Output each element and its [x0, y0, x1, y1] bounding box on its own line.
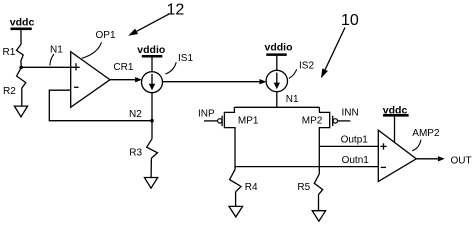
wire N1 rail [234, 106, 319, 108]
svg-text:R5: R5 [297, 182, 310, 193]
op-amp AMP2 [378, 130, 416, 181]
wire AMP2 output to OUT [416, 158, 438, 160]
ground (below R2) [14, 106, 27, 117]
resistor R1 [17, 44, 24, 66]
svg-text:MP1: MP1 [238, 115, 259, 126]
svg-text:N2: N2 [129, 109, 142, 120]
wire MP1 drain column [234, 131, 236, 170]
wire IS2 to N1 rail [276, 92, 278, 108]
transistor MP1 [218, 107, 235, 131]
svg-text:R2: R2 [3, 86, 16, 97]
leader IS1 [165, 62, 176, 74]
wire INN to MP2 gate [338, 120, 351, 122]
power rail vddio (IS1) [142, 55, 163, 72]
current source IS1 [142, 72, 163, 93]
svg-text:Outn1: Outn1 [342, 155, 370, 166]
node N2 dot [150, 119, 154, 123]
leader AMP2 [412, 140, 421, 151]
wire Outn1 [235, 166, 378, 168]
power rail vddc (left) [11, 28, 32, 45]
leader OP1 [82, 42, 102, 58]
svg-text:R3: R3 [129, 147, 142, 158]
svg-text:MP2: MP2 [302, 116, 323, 127]
svg-text:INN: INN [342, 108, 359, 119]
current source IS2 [266, 70, 287, 91]
leader N1 [50, 54, 54, 66]
leader IS2 [289, 69, 297, 78]
resistor R3 [147, 139, 158, 178]
svg-text:R4: R4 [245, 182, 258, 193]
arrow 10 [325, 28, 345, 70]
svg-text:N1: N1 [286, 94, 299, 105]
svg-text:IS1: IS1 [178, 53, 193, 64]
ground (below R4) [229, 206, 243, 217]
wire CR1 (op-amp output to IS1) [110, 79, 136, 81]
power rail vddc (AMP2) [383, 114, 409, 142]
svg-text:vddc: vddc [10, 17, 35, 29]
svg-text:R1: R1 [3, 47, 16, 58]
svg-text:vddc: vddc [383, 104, 408, 116]
resistor R5 [314, 174, 322, 211]
wire node to op-amp + input [21, 66, 79, 68]
svg-text:vddio: vddio [137, 44, 165, 56]
power rail vddio (IS2) [266, 53, 286, 70]
wire Outp1 [319, 145, 378, 147]
svg-text:vddio: vddio [265, 42, 293, 54]
svg-text:N1: N1 [50, 44, 63, 55]
svg-text:12: 12 [167, 1, 185, 18]
ground (below R5) [312, 211, 325, 222]
resistor R4 [230, 170, 242, 207]
svg-text:AMP2: AMP2 [412, 128, 440, 139]
svg-text:10: 10 [341, 12, 359, 29]
wire MP2 drain column [318, 131, 320, 174]
wire INP to MP1 gate [204, 120, 218, 122]
transistor MP2 [319, 107, 337, 131]
arrow 12 [137, 14, 170, 32]
resistor R2 [17, 67, 26, 106]
ground (below R3) [144, 178, 157, 189]
svg-text:Outp1: Outp1 [341, 134, 369, 145]
svg-text:IS2: IS2 [299, 60, 314, 71]
node junction dot (R1/R2) [19, 66, 23, 70]
op-amp OP1 [71, 52, 110, 108]
wire IS1 to IS2 [163, 81, 261, 83]
svg-text:CR1: CR1 [113, 62, 133, 73]
wire feedback (op-amp - input to node N2) [49, 90, 152, 121]
wire IS1 to node N2 to R3 [151, 93, 153, 139]
svg-text:OUT: OUT [451, 155, 472, 166]
svg-text:OP1: OP1 [96, 30, 116, 41]
svg-text:INP: INP [198, 109, 215, 120]
